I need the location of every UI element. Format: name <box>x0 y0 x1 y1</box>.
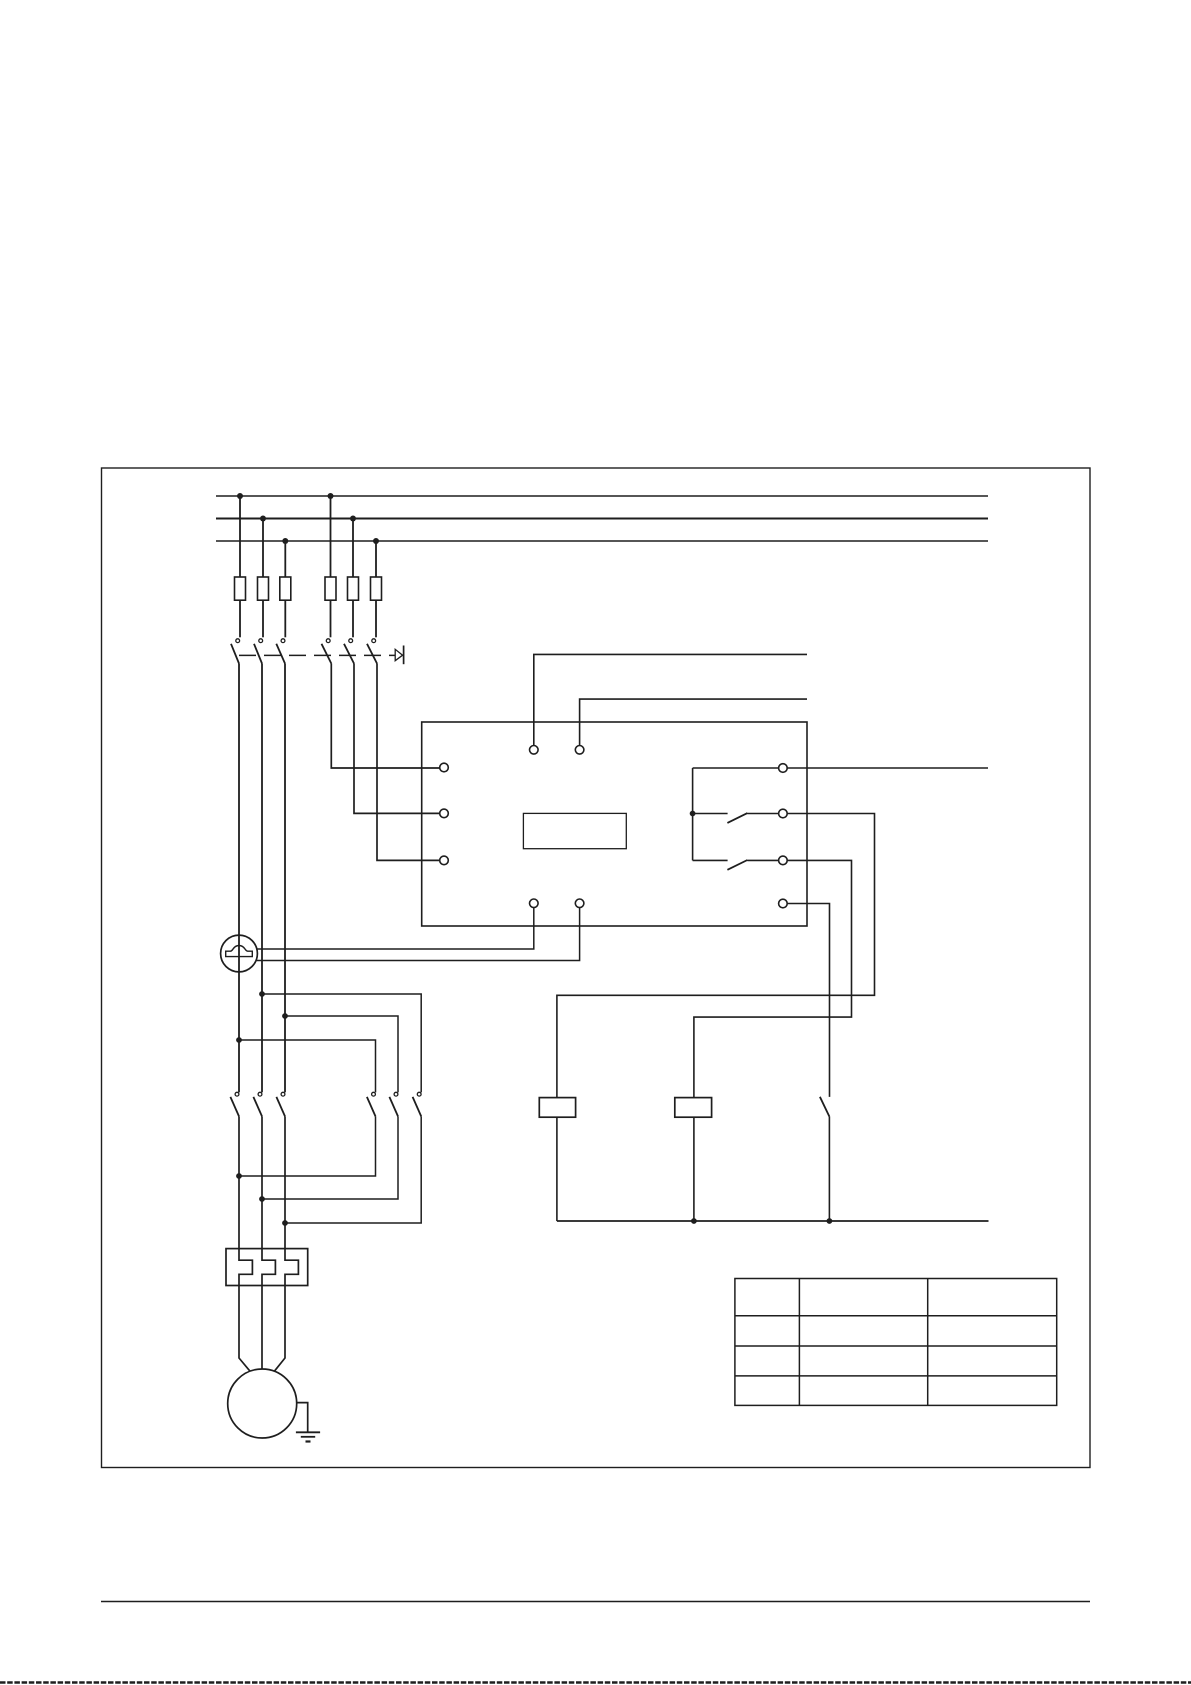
drawing frame <box>102 468 1091 1468</box>
node tap L2-b <box>350 516 356 522</box>
wire fuse3 to breaker <box>284 600 286 637</box>
wire drop phase1 group2 <box>330 496 332 577</box>
wire bottom terminal 1 to meter <box>257 908 534 949</box>
breaker Q1 pole1 <box>231 639 240 664</box>
wire breaker pole3 down <box>284 664 286 1093</box>
wire fuse1 to breaker <box>239 600 241 637</box>
wire bottom rail <box>557 1220 989 1222</box>
wire pole4 to terminal 1 <box>331 664 439 769</box>
wire drop phase3 group2 <box>375 541 377 577</box>
wire fuse5 to breaker <box>352 600 354 637</box>
node tap L2-a <box>260 516 266 522</box>
wire crossover bottom c <box>285 1116 421 1223</box>
contactor K1 pole2 <box>253 1092 262 1116</box>
wire pole6 to terminal 3 <box>377 664 440 861</box>
breaker Q1 pole3 <box>276 639 285 664</box>
wire bottom terminal 2 to meter <box>256 908 580 961</box>
display rectangle inside U1 <box>523 813 626 848</box>
motor M1 <box>228 1369 297 1438</box>
fuse F2 <box>258 577 269 600</box>
wire top terminal 1 <box>534 654 807 745</box>
breaker Q1 pole6 <box>367 639 377 664</box>
ground <box>296 1432 320 1441</box>
wire pole5 to terminal 2 <box>354 664 440 814</box>
node rail b <box>827 1218 833 1224</box>
wire crossover top b <box>285 1016 398 1092</box>
wire breaker pole2 down <box>261 664 263 1093</box>
wire output right 2 to coil K1 <box>557 814 875 1098</box>
terminal circle left 1 <box>440 763 449 772</box>
wire drop phase2 group1 <box>262 519 264 578</box>
bus line L1 <box>216 495 988 497</box>
contact S1 inside U1 <box>693 813 779 823</box>
wire crossover top c <box>239 1040 376 1092</box>
controller box U1 <box>422 722 807 926</box>
internal branch vertical <box>692 768 694 860</box>
coil K2 <box>675 1098 712 1118</box>
fuse F5 <box>348 577 359 600</box>
node internal branch <box>690 811 696 817</box>
contact S2 inside U1 <box>693 860 779 870</box>
contactor K1 pole3 <box>276 1092 285 1116</box>
legend table <box>735 1279 1057 1406</box>
wire drop phase2 group2 <box>352 519 354 578</box>
node tap L3-a <box>282 538 288 544</box>
contactor K2 pole1 <box>367 1092 376 1116</box>
contactor K2 pole3 <box>413 1092 422 1116</box>
page bottom dashed rule <box>0 1681 1191 1683</box>
terminal circle left 3 <box>440 856 449 865</box>
node tap L1-b <box>328 493 334 499</box>
node tap L1-a <box>237 493 243 499</box>
wire fuse6 to breaker <box>375 600 377 637</box>
bus line L2 <box>216 518 988 520</box>
bus line L3 <box>216 540 988 542</box>
terminal circle right 1 <box>779 764 788 773</box>
terminal circle left 2 <box>440 809 449 818</box>
node contactor bottom b <box>259 1196 265 1202</box>
terminal circle top 2 <box>575 746 584 755</box>
wire fuse4 to breaker <box>330 600 332 637</box>
node contactor bottom c <box>282 1220 288 1226</box>
breaker mechanical link (dashed) <box>239 654 395 656</box>
node tap L3-b <box>373 538 379 544</box>
node contactor top c <box>236 1037 242 1043</box>
overload heater phase1 and wire to motor <box>239 1116 252 1371</box>
fuse F1 <box>235 577 246 600</box>
trip release symbol <box>395 646 403 665</box>
terminal circle top 1 <box>530 746 539 755</box>
terminal circle right 3 <box>779 856 788 865</box>
wire output right 1 <box>787 767 988 769</box>
wire drop phase1 group1 <box>239 496 241 577</box>
wire top terminal 2 <box>580 699 807 745</box>
terminal circle right 2 <box>779 809 788 818</box>
wire drop phase3 group1 <box>284 541 286 577</box>
node contactor bottom a <box>236 1173 242 1179</box>
fuse F4 <box>325 577 336 600</box>
terminal circle bottom 2 <box>575 899 584 908</box>
wire output right 3 to coil K2 <box>694 860 852 1097</box>
fuse F3 <box>280 577 291 600</box>
wire crossover bottom a <box>239 1116 376 1176</box>
terminal circle right 4 <box>779 899 788 908</box>
breaker Q1 pole2 <box>254 639 263 664</box>
node contactor top b <box>282 1013 288 1019</box>
wire coil K2 to rail <box>693 1117 695 1221</box>
overload heater phase2 and wire to motor <box>262 1116 275 1369</box>
breaker Q1 pole4 <box>322 639 332 664</box>
fuse F6 <box>371 577 382 600</box>
node rail a <box>691 1218 697 1224</box>
wire coil K1 to rail <box>556 1117 558 1221</box>
breaker Q1 pole5 <box>344 639 354 664</box>
wire motor to ground <box>297 1403 308 1432</box>
contact S3 <box>820 1097 830 1221</box>
wire fuse2 to breaker <box>262 600 264 637</box>
wire output right 4 <box>787 904 829 1097</box>
overload relay F7 box <box>226 1249 308 1286</box>
contactor K2 pole2 <box>389 1092 398 1116</box>
wire internal top to output L <box>693 767 779 769</box>
meter P1 <box>221 935 258 972</box>
coil K1 <box>539 1098 575 1118</box>
contactor K1 pole1 <box>230 1092 239 1116</box>
footer rule <box>101 1601 1090 1603</box>
node contactor top a <box>259 991 265 997</box>
wire crossover bottom b <box>262 1116 398 1199</box>
terminal circle bottom 1 <box>530 899 539 908</box>
overload heater phase3 and wire to motor <box>274 1116 298 1371</box>
wire breaker pole1 down (through meter) <box>238 664 240 1093</box>
wire crossover top a <box>262 994 421 1092</box>
